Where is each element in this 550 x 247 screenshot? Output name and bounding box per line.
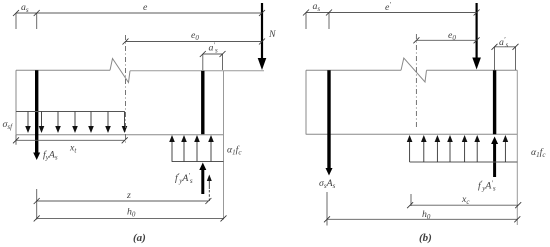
svg-text:e0: e0 xyxy=(448,30,456,42)
extension lines top dims (a) xyxy=(15,13,17,29)
svg-text:a′s: a′s xyxy=(499,36,508,49)
ticks top dim (a) xyxy=(13,10,265,16)
beam top edge right of break (b) xyxy=(427,69,518,71)
x_c dimension (b) xyxy=(410,204,518,206)
svg-text:a′s: a′s xyxy=(209,42,218,55)
svg-text:xt: xt xyxy=(69,143,77,155)
h0 dimension (b) xyxy=(327,218,517,220)
svg-text:(b): (b) xyxy=(419,232,432,244)
rebar As bar with force arrow fyAs (a) xyxy=(35,70,38,153)
svg-text:f′yA′s: f′yA′s xyxy=(478,180,496,193)
beam bottom edge (a) xyxy=(16,134,224,136)
N force arrow (a) xyxy=(261,3,263,60)
centroid dash-dot line (a) xyxy=(125,35,127,145)
svg-text:as: as xyxy=(313,1,321,13)
centroid dash-dot line (b) xyxy=(415,34,417,128)
break symbol (a) xyxy=(110,59,130,83)
svg-text:e: e xyxy=(143,2,148,13)
N force arrow (b) xyxy=(476,3,478,59)
sigma_sf stress block top line (a) xyxy=(16,111,125,113)
svg-text:α1fc: α1fc xyxy=(227,145,242,157)
beam top edge right of break, extended to N line (a) xyxy=(130,70,264,72)
concrete stress block alpha1fc (a): bottom line xyxy=(172,161,224,163)
svg-text:z: z xyxy=(126,190,131,201)
beam left edge (b) xyxy=(305,70,307,134)
rebar A's bar (a) xyxy=(201,71,204,134)
force arrow f'yA's (a), thick up arrow below block xyxy=(201,169,204,194)
beam outline (b): top edge left of break xyxy=(306,69,401,71)
svg-text:f′yA′s: f′yA′s xyxy=(175,172,193,185)
svg-text:e0: e0 xyxy=(191,30,199,42)
rebar A's bar (b) xyxy=(493,70,496,134)
beam bottom edge (b) xyxy=(306,133,517,135)
z dimension (a) xyxy=(37,200,209,202)
svg-text:h0: h0 xyxy=(422,209,431,221)
concrete stress block bottom line (b) xyxy=(410,161,518,163)
force arrow f'yA's (b), thick up arrow through block xyxy=(493,143,496,177)
beam left edge (a) xyxy=(15,70,17,135)
beam right edge (b), extended down to h0 line xyxy=(516,70,518,225)
svg-text:σsf: σsf xyxy=(3,119,14,131)
e0 dimension line (a) xyxy=(126,41,263,43)
svg-text:σsAs: σsAs xyxy=(319,178,336,190)
alpha1fc up arrows (a) xyxy=(172,141,211,162)
e0 dimension line (b) xyxy=(416,39,476,41)
beam outline (a): top edge left of break xyxy=(16,69,110,71)
svg-text:as: as xyxy=(21,2,29,14)
svg-text:N: N xyxy=(268,29,276,40)
svg-text:xc: xc xyxy=(461,194,470,206)
beam right edge (a), extended down as h0 extension xyxy=(223,71,225,220)
rebar As bar with force arrow sigma_s As (b) xyxy=(327,70,330,168)
svg-text:α1fc: α1fc xyxy=(531,147,546,159)
alpha1fc up arrows (b) xyxy=(410,141,506,162)
svg-text:e′: e′ xyxy=(385,1,391,13)
svg-text:fyAs: fyAs xyxy=(43,150,58,162)
a's dimension (a) xyxy=(203,53,223,55)
top dimension line a_s + e' (b) xyxy=(306,12,477,14)
svg-text:(a): (a) xyxy=(133,232,146,244)
svg-text:h0: h0 xyxy=(127,207,136,219)
sigma_sf distributed arrows (a) xyxy=(28,112,125,128)
top dimension line a_s + e (a) xyxy=(16,12,262,14)
z dimension right extension arrow (a) xyxy=(208,177,210,189)
h0 dimension (a) xyxy=(37,217,224,219)
a's dimension (b) xyxy=(495,46,516,48)
break symbol (b) xyxy=(401,58,427,82)
x_t dimension (a) xyxy=(16,139,125,141)
